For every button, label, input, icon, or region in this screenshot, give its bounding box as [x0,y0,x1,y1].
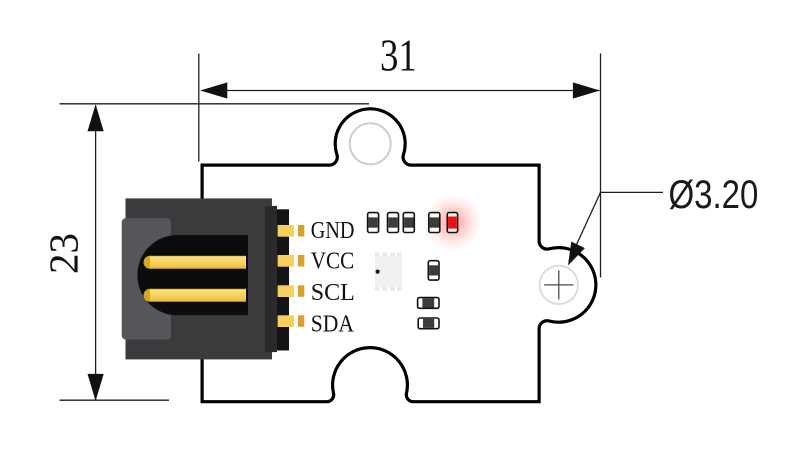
board outline [202,109,596,402]
chip C1 [368,213,379,233]
svg-text:23: 23 [40,233,86,274]
connector left panel [122,218,171,339]
arrow bottom of 23 [88,374,104,401]
dimension line 23 [95,106,97,401]
pad VCC [278,255,305,267]
LED glow [420,191,486,255]
arrow top of 23 [88,104,104,131]
leader arrowhead [568,242,585,266]
mounting hole [540,266,578,304]
pin 1 [144,256,247,269]
svg-text:31: 31 [380,31,417,82]
IC U1 pads [375,253,402,291]
chip C3 [403,213,414,233]
dimension line 31 [202,90,600,92]
arrow right of 31 [573,82,600,98]
pin 2 [144,289,247,302]
top tab hole [350,123,391,164]
arrow left of 31 [200,82,227,98]
pad GND [278,225,305,237]
chip C7 [418,318,439,329]
pad SDA [278,315,305,327]
extension line bottom (23 dim) [60,399,170,401]
chip C2 [388,213,399,233]
svg-text:GND: GND [311,217,355,244]
extension line top (23 dim) [60,103,370,105]
crosshair [544,270,573,299]
IC U1 body [375,256,402,287]
LED D1 [447,213,457,233]
chip C6 [418,298,439,309]
connector body [126,198,273,359]
chip C4 [429,213,440,233]
connector cavity [137,235,248,315]
connector black strip [277,209,289,350]
chip C5 [428,261,439,280]
svg-text:VCC: VCC [311,247,354,274]
pad SCL [278,285,305,297]
IC U1 pin1 dot [376,270,380,274]
connector right step column [265,206,277,352]
extension line right (31 dim) [600,54,602,278]
extension line left (31 dim) [198,54,200,162]
svg-text:SDA: SDA [311,311,355,337]
svg-text:Ø3.20: Ø3.20 [669,172,759,217]
leader line for hole diameter [601,191,664,193]
svg-text:SCL: SCL [311,280,355,306]
